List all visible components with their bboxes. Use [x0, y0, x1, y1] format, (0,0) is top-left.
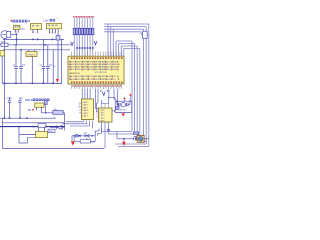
U2 bottom pins	[84, 120, 93, 123]
resistor R2 box	[53, 109, 63, 114]
trimmer RP1	[84, 134, 90, 140]
op IC U1	[68, 56, 124, 84]
junction led	[123, 138, 125, 140]
U1 top pins	[72, 52, 122, 57]
svg-text:10k: 10k	[54, 109, 57, 111]
capacitor C4	[46, 67, 50, 84]
net arrow below IC	[102, 92, 105, 96]
capacitor C9 on bus	[107, 129, 110, 131]
motor M1	[1, 31, 9, 39]
wires from bus to h1358	[95, 129, 101, 136]
IC U3	[99, 108, 113, 122]
wire gnd bus dark	[0, 126, 65, 128]
wire net h1228	[3, 122, 65, 124]
U1 bottom pins	[72, 84, 122, 89]
junction row comb	[76, 47, 93, 49]
wire K1 left loop	[19, 127, 36, 143]
crystal Y1	[117, 101, 130, 107]
svg-text:C6: C6	[21, 98, 23, 100]
junction rail	[4, 83, 54, 85]
svg-text:1 A0 8: 1 A0 8	[82, 104, 87, 107]
motor terminal box	[7, 31, 11, 37]
svg-text:1 A0 8: 1 A0 8	[82, 101, 87, 104]
buzzer LS1	[137, 135, 144, 142]
wire vertical x43	[42, 39, 44, 65]
capacitor C1	[14, 67, 18, 84]
capacitor C3	[42, 67, 46, 84]
net labels above RN1	[73, 16, 94, 18]
wire vertical x16	[15, 45, 17, 66]
wire down from R2	[64, 113, 66, 128]
power flag small	[32, 109, 34, 111]
svg-text:1 IN 5: 1 IN 5	[99, 120, 104, 122]
U3 text	[99, 110, 104, 122]
label 输出端子	[11, 20, 30, 23]
svg-text:1 A0 8: 1 A0 8	[82, 106, 87, 109]
capacitor C8	[132, 137, 137, 141]
U1 pin numbers below	[72, 85, 121, 87]
bus loop L3	[121, 46, 137, 137]
wire led net	[117, 132, 133, 139]
junction h1358	[73, 135, 92, 136]
U1 pin numbers bottom	[71, 81, 123, 83]
wire left vert bottom	[2, 118, 4, 148]
wire vertical x478	[47, 45, 49, 66]
junctions nets	[16, 39, 54, 51]
U1 pin labels rows	[69, 60, 118, 80]
regulator U6	[26, 50, 37, 84]
svg-text:1:5V: 1:5V	[43, 19, 49, 23]
U3 top pins	[101, 100, 108, 108]
bus drop D3	[112, 29, 114, 56]
wire right of LS1	[144, 138, 149, 140]
resistor R4	[74, 136, 95, 143]
wire xtal bottom	[115, 101, 132, 112]
U3 bottom pins	[101, 122, 108, 149]
netlabel box right of U3	[116, 107, 119, 110]
svg-text:1 7805 3: 1 7805 3	[27, 55, 36, 57]
netlabel box above C8	[133, 132, 139, 135]
U2 text	[82, 101, 87, 118]
resistor R3 box on bus	[38, 124, 46, 128]
svg-text:X1 4M C10: X1 4M C10	[117, 109, 128, 111]
wires IC to U2	[82, 89, 90, 100]
label J2 net	[43, 19, 55, 23]
wire vertical x21	[20, 50, 22, 66]
svg-text:1 A0 8: 1 A0 8	[82, 109, 87, 112]
svg-text:MB89P195: MB89P195	[69, 73, 81, 75]
diode D2	[50, 125, 65, 129]
capacitor C6	[18, 97, 21, 118]
relay K1	[36, 127, 48, 138]
IC U2	[82, 99, 94, 120]
bus line B1	[104, 24, 149, 147]
bus line B2	[104, 27, 146, 144]
wire vertical x605	[61, 39, 63, 83]
bus loop L2	[109, 44, 135, 135]
connector J1	[14, 25, 21, 33]
power symbol plus	[129, 94, 132, 102]
junction xtal	[116, 101, 130, 102]
wire xtal top	[108, 98, 132, 102]
resistor network RN1	[73, 18, 94, 56]
component U5 left edge	[0, 51, 5, 84]
U3 right pin	[112, 110, 116, 111]
label W box	[48, 129, 55, 133]
svg-text:V5: V5	[53, 66, 55, 68]
net arrow right	[94, 41, 97, 45]
diode D3	[76, 134, 80, 137]
wire bottom long	[3, 148, 105, 150]
power flag GND3	[71, 136, 75, 146]
junction h1182	[4, 117, 28, 119]
wire net1 horizontal	[3, 38, 64, 40]
svg-text:1 A0 8: 1 A0 8	[82, 112, 87, 115]
wire net2 horizontal	[8, 44, 71, 46]
bus drop D2	[110, 27, 112, 57]
svg-text:2: 2	[79, 107, 80, 109]
U1 pin numbers top	[71, 57, 123, 59]
svg-text:1 A0 8: 1 A0 8	[82, 115, 87, 118]
wire net3 horizontal	[3, 49, 70, 51]
svg-text:C5/10: C5/10	[7, 98, 12, 100]
wire J1 pin down	[16, 34, 18, 45]
capacitor C2	[19, 67, 23, 84]
fuse FU1	[0, 43, 17, 46]
svg-text:1 2 3 4: 1 2 3 4	[49, 32, 56, 34]
wire AB horizontal	[41, 112, 64, 114]
bus line B4	[104, 32, 141, 35]
component U7	[35, 103, 44, 113]
U1 red bits	[69, 61, 119, 80]
power flag GND4	[122, 142, 126, 146]
bus loop L1	[101, 41, 132, 132]
connector P right	[141, 31, 147, 38]
power flag VCC xtal	[123, 97, 126, 99]
wire IC pin right drops	[100, 89, 118, 107]
bus loop L4	[124, 49, 146, 140]
power flag GND1	[56, 79, 59, 83]
wire down to gnd4	[123, 139, 125, 142]
svg-text:1.0k: 1.0k	[91, 142, 95, 144]
wires IC to U3	[95, 89, 98, 112]
power flag GND xtal	[121, 113, 125, 116]
junction motor node	[16, 34, 18, 36]
wire motor to node	[11, 33, 17, 35]
U2 left label	[79, 102, 81, 109]
bus drop D1	[107, 24, 109, 56]
diode D1 on vertical	[56, 34, 60, 79]
wire vertical x53	[52, 50, 54, 84]
svg-text:MB3.9: MB3.9	[25, 99, 33, 102]
connector J3	[47, 23, 62, 33]
wire net h1358	[65, 127, 96, 136]
U2 left pins	[79, 104, 82, 113]
svg-text:4.7k: 4.7k	[84, 133, 88, 135]
U2 bottom L wires	[62, 122, 93, 129]
label MB39 text	[25, 99, 49, 103]
net arrow left	[71, 42, 74, 46]
junction gndbus	[18, 126, 47, 128]
ground rail	[2, 82, 62, 84]
svg-text:VCC RST X0: VCC RST X0	[95, 72, 108, 74]
svg-text:AB: AB	[28, 109, 32, 112]
U3 left label	[96, 111, 98, 119]
bus line B3	[104, 29, 147, 141]
connector J2	[31, 24, 42, 34]
wire vertical left rail	[3, 39, 5, 83]
wire left vertical lower	[3, 83, 5, 118]
capacitor C5	[8, 97, 11, 118]
netlabel box	[44, 100, 47, 113]
svg-text:GY: GY	[21, 28, 25, 31]
wire net h1182	[0, 117, 56, 119]
